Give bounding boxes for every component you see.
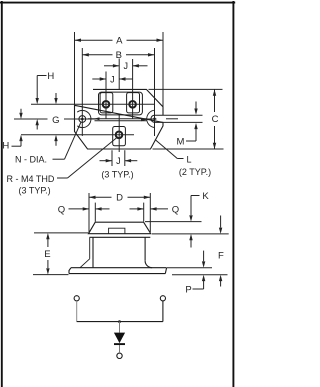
package parting lines across middle — [88, 118, 147, 120]
dimension A — [75, 32, 164, 107]
svg-text:H: H — [47, 71, 54, 82]
screw terminal left — [103, 101, 110, 108]
svg-text:N - DIA.: N - DIA. — [15, 155, 47, 165]
svg-text:(3 TYP.): (3 TYP.) — [101, 170, 133, 180]
dimension H lower-left — [12, 109, 22, 146]
terminal circle left — [74, 296, 79, 301]
left mounting ear gusset — [80, 237, 90, 267]
wire anode drop — [119, 322, 121, 333]
centerline right hole vertical / B extension — [154, 48, 156, 136]
lid (top cover with bevels) — [89, 222, 151, 237]
terminal pad right — [127, 93, 140, 113]
svg-text:K: K — [202, 191, 209, 202]
screw terminal bottom — [116, 132, 123, 139]
dimension K (lid thickness) — [145, 196, 229, 248]
centerline package middle vertical — [118, 59, 120, 90]
svg-text:J: J — [123, 61, 128, 71]
terminal pad bottom — [113, 127, 126, 146]
screw terminal right — [129, 101, 136, 108]
wire bus horizontal — [77, 321, 163, 323]
svg-text:E: E — [44, 249, 50, 260]
svg-text:F: F — [218, 250, 224, 261]
centerline top screw row — [31, 103, 155, 105]
svg-text:G: G — [52, 115, 59, 126]
wire left drop — [76, 301, 78, 322]
wire cathode drop — [119, 345, 121, 353]
centerline left screw vertical — [105, 72, 107, 119]
svg-text:J: J — [110, 74, 115, 84]
terminal circle right — [160, 296, 165, 301]
svg-text:(2 TYP.): (2 TYP.) — [179, 167, 211, 177]
terminal pad left — [100, 93, 113, 113]
svg-text:Q: Q — [58, 204, 65, 215]
dimension J lower (left screw to center) — [92, 78, 105, 80]
wire right drop — [162, 301, 164, 322]
svg-text:H: H — [2, 141, 9, 152]
dimension B — [82, 54, 154, 56]
svg-text:(3 TYP.): (3 TYP.) — [19, 186, 51, 196]
svg-text:B: B — [116, 50, 122, 61]
svg-text:M: M — [177, 136, 185, 147]
dimension P (flange thickness) — [167, 251, 228, 289]
svg-text:J: J — [116, 156, 121, 166]
svg-text:R - M4 THD: R - M4 THD — [7, 174, 55, 184]
flange base plate — [69, 268, 167, 274]
dimension Q left — [69, 203, 110, 222]
dimension J upper (center to right screw) — [104, 65, 119, 67]
svg-text:D: D — [116, 193, 123, 204]
dimension C — [149, 89, 224, 149]
dimension M (slot width) — [163, 102, 203, 142]
terminal recess rectangle — [99, 92, 143, 115]
svg-text:A: A — [116, 35, 123, 46]
package outline (octagonal base with right slot opening) — [75, 89, 164, 149]
svg-text:C: C — [212, 114, 219, 125]
terminal circle bottom — [117, 353, 122, 358]
dimension D — [89, 193, 150, 232]
lid top boss — [109, 228, 125, 234]
dimension H upper-left — [37, 76, 46, 130]
page border frame — [0, 1, 235, 387]
mounting hole left (washer + hole + center dot) — [77, 110, 91, 127]
diode D1 — [114, 333, 125, 344]
svg-text:L: L — [187, 155, 192, 165]
dimension G arrows — [55, 93, 57, 98]
dimension Q right — [130, 203, 169, 222]
centerline bottom screw row — [21, 134, 134, 136]
centerline left hole vertical / B extension — [81, 48, 83, 136]
svg-text:P: P — [185, 284, 191, 295]
svg-text:Q: Q — [172, 204, 179, 215]
centerline right screw vertical — [132, 59, 134, 119]
dimension J bottom (3 TYP.) — [100, 150, 138, 166]
dimension E — [33, 233, 89, 275]
label L (2 TYP.) with leader to ear chamfer — [155, 140, 177, 159]
dimension F — [220, 216, 222, 287]
body box — [93, 237, 152, 267]
junction dot — [118, 320, 121, 323]
centerline hole row horizontal — [14, 118, 178, 120]
mounting slot right (arc + slot edges + washer arc + center dot) — [147, 110, 163, 127]
